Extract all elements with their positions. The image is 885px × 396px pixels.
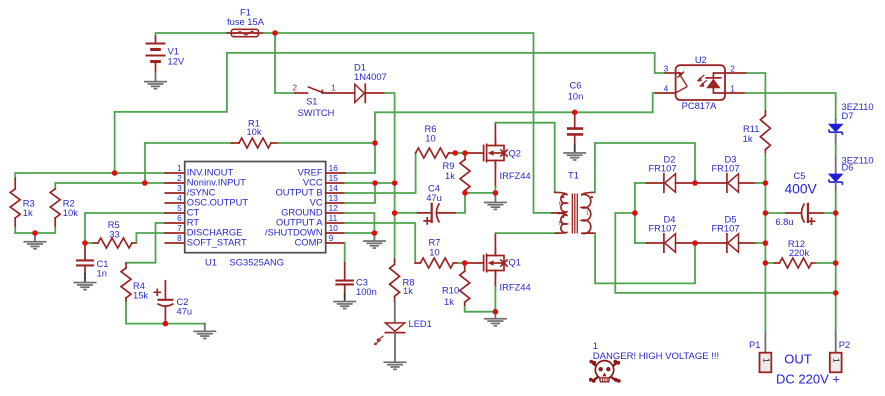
zener D6 3EZ110 xyxy=(829,144,874,190)
svg-text:7: 7 xyxy=(177,223,182,233)
wire Q1 drain to T1 xyxy=(494,233,496,255)
resistor R3 1k xyxy=(10,173,165,233)
svg-text:INV.INOUT: INV.INOUT xyxy=(187,168,234,178)
svg-text:DISCHARGE: DISCHARGE xyxy=(187,228,243,238)
ground under V1 xyxy=(144,72,167,90)
wire R9 to Q2 source xyxy=(465,192,495,194)
wire OUTPUT A pin11 to R7 xyxy=(345,223,416,263)
node pin2 junction xyxy=(142,180,148,186)
node R7-gate junction xyxy=(462,260,468,266)
resistor R1 10k xyxy=(145,119,375,184)
svg-text:R3: R3 xyxy=(23,199,35,209)
resistor R5 33 xyxy=(85,220,165,248)
node pin10 ground junction xyxy=(372,230,378,236)
node R9 bottom junction xyxy=(462,190,468,196)
svg-text:10n: 10n xyxy=(568,92,584,102)
svg-text:C3: C3 xyxy=(356,278,368,288)
svg-text:OUT: OUT xyxy=(784,352,812,367)
ground under Q1 source xyxy=(484,312,507,327)
wire D1 to VCC rail xyxy=(385,93,395,259)
wire OUTPUT B pin14 to R6 xyxy=(345,153,416,193)
svg-text:D6: D6 xyxy=(842,163,854,173)
wire opto feedback to pin1 xyxy=(115,53,666,173)
node C5 right junction xyxy=(833,210,839,216)
diode D1 1N4007 xyxy=(354,63,387,103)
svg-text:C2: C2 xyxy=(177,297,189,307)
svg-text:SG3525ANG: SG3525ANG xyxy=(230,258,285,268)
svg-text:R9: R9 xyxy=(443,161,455,171)
svg-text:2: 2 xyxy=(177,173,182,183)
capacitor C6 10n xyxy=(567,81,583,153)
svg-text:IRFZ44: IRFZ44 xyxy=(500,283,531,293)
node bridge-right D5 junction xyxy=(763,240,769,246)
resistor R4 15k xyxy=(121,263,205,323)
svg-text:1: 1 xyxy=(730,83,735,93)
svg-text:1k: 1k xyxy=(743,134,753,144)
capacitor C1 1n xyxy=(76,243,108,282)
resistor R10 1k xyxy=(442,263,495,312)
svg-text:100n: 100n xyxy=(356,287,377,297)
svg-text:2: 2 xyxy=(293,84,298,93)
wire pin5 CT to C1 xyxy=(85,213,165,243)
svg-text:C1: C1 xyxy=(97,259,109,269)
node D4-D5 junction xyxy=(692,240,698,246)
node R6-gate junction A xyxy=(452,150,458,156)
svg-text:LED1: LED1 xyxy=(409,319,432,329)
ground under R3/R2 xyxy=(24,233,47,250)
ground under C3 xyxy=(333,301,356,303)
optocoupler U2 PC817A xyxy=(656,55,747,111)
svg-text:15: 15 xyxy=(329,173,339,183)
capacitor C5 6.8u 400V xyxy=(765,171,835,227)
wire VCC pin15 row xyxy=(345,182,395,184)
svg-text:IRFZ44: IRFZ44 xyxy=(500,171,531,181)
resistor R11 1k xyxy=(743,111,771,154)
transformer T1 xyxy=(552,170,595,233)
svg-text:U2: U2 xyxy=(695,55,707,65)
node R3/R2 ground junction xyxy=(32,230,38,236)
svg-text:15k: 15k xyxy=(133,291,148,301)
svg-text:4: 4 xyxy=(177,193,182,203)
diode D5 FR107 xyxy=(695,215,765,253)
svg-text:R5: R5 xyxy=(108,220,120,230)
node bridge-left mid junction xyxy=(632,210,638,216)
svg-text:D7: D7 xyxy=(842,111,854,121)
wire bridge left to output row xyxy=(615,213,835,293)
capacitor C2 47u xyxy=(154,281,192,324)
svg-text:C6: C6 xyxy=(570,81,582,91)
ground right of C2 xyxy=(193,324,216,340)
svg-text:5: 5 xyxy=(177,203,182,213)
diode D2 FR107 xyxy=(635,155,695,193)
node R12 right junction xyxy=(833,260,839,266)
node C6 junction xyxy=(572,110,578,116)
svg-text:fuse 15A: fuse 15A xyxy=(227,17,265,27)
svg-text:10: 10 xyxy=(425,134,435,144)
svg-text:Noninv.INPUT: Noninv.INPUT xyxy=(187,178,246,188)
wire R11 to bridge column xyxy=(764,154,766,333)
node bridge-right D3 junction xyxy=(763,180,769,186)
svg-text:47u: 47u xyxy=(177,307,193,317)
svg-text:10k: 10k xyxy=(63,208,78,218)
wire VCC to VC pin13 xyxy=(345,183,375,203)
node bridge-right R12 junction xyxy=(763,260,769,266)
skull danger symbol xyxy=(589,360,621,383)
svg-text:D1: D1 xyxy=(354,63,366,73)
svg-text:6.8u: 6.8u xyxy=(775,217,793,227)
resistor R9 1k xyxy=(443,153,471,193)
wire GROUND pin12 to pin10 xyxy=(345,213,375,233)
wire pin6 RT to R4 xyxy=(126,223,165,263)
svg-text:DC 220V +: DC 220V + xyxy=(776,372,840,387)
node R1-VREF junction xyxy=(372,140,378,146)
battery V1 xyxy=(146,33,228,72)
node R6-gate junction B xyxy=(462,150,468,156)
node VCC-C4 junction xyxy=(392,210,398,216)
node top-rail junction xyxy=(272,30,278,36)
svg-text:OSC.OUTPUT: OSC.OUTPUT xyxy=(187,198,249,208)
svg-text:R11: R11 xyxy=(743,124,759,134)
svg-text:N: N xyxy=(559,201,563,207)
transistor Q2 IRFZ44 xyxy=(465,139,507,167)
wire U2 pin1 to zeners xyxy=(745,93,835,119)
svg-text:VC: VC xyxy=(310,198,323,208)
ground under Q2 source xyxy=(484,193,507,210)
switch S1 xyxy=(293,84,354,119)
svg-text:PC817A: PC817A xyxy=(682,101,718,111)
node R4/C2 junction xyxy=(163,321,169,327)
svg-text:N: N xyxy=(559,221,563,227)
svg-text:FR107: FR107 xyxy=(648,164,676,174)
ground under LED1 xyxy=(384,361,407,363)
svg-text:8: 8 xyxy=(177,233,182,243)
svg-text:10: 10 xyxy=(329,223,339,233)
node Q1 source junction xyxy=(493,309,499,315)
svg-text:1: 1 xyxy=(593,341,598,351)
capacitor C3 100n xyxy=(335,263,376,301)
svg-text:RT: RT xyxy=(187,218,200,228)
svg-text:R6: R6 xyxy=(425,124,437,134)
wire VREF pin16 riser xyxy=(345,93,656,173)
svg-text:SOFT_START: SOFT_START xyxy=(187,238,247,248)
svg-text:VREF: VREF xyxy=(298,168,323,178)
svg-text:1: 1 xyxy=(177,163,182,173)
svg-text:3: 3 xyxy=(177,183,182,193)
svg-text:GROUND: GROUND xyxy=(281,208,323,218)
svg-text:P1: P1 xyxy=(749,340,760,350)
svg-text:OUTPUT B: OUTPUT B xyxy=(276,188,323,198)
connector P1 xyxy=(749,333,771,373)
svg-text:FR107: FR107 xyxy=(648,224,676,234)
resistor R12 220k xyxy=(765,239,835,268)
led LED1 xyxy=(374,302,432,362)
svg-text:/SYNC: /SYNC xyxy=(187,188,216,198)
svg-text:1k: 1k xyxy=(445,171,455,181)
svg-text:1k: 1k xyxy=(403,286,413,296)
svg-text:Q1: Q1 xyxy=(509,258,521,268)
wire Q2 source pin xyxy=(494,161,496,188)
svg-text:SWITCH: SWITCH xyxy=(298,108,335,118)
diode D4 FR107 xyxy=(635,215,695,253)
node output row junction xyxy=(833,290,839,296)
capacitor C4 47u xyxy=(395,184,465,224)
ground under C1 xyxy=(74,282,97,284)
svg-text:VCC: VCC xyxy=(303,178,323,188)
svg-text:13: 13 xyxy=(329,193,339,203)
svg-text:1k: 1k xyxy=(23,208,33,218)
svg-text:R10: R10 xyxy=(442,286,459,296)
wire COMP pin9 down xyxy=(344,243,346,263)
svg-text:10k: 10k xyxy=(246,127,261,137)
svg-text:FR107: FR107 xyxy=(711,164,739,174)
svg-text:FR107: FR107 xyxy=(711,224,739,234)
wire bridge left column xyxy=(634,183,636,243)
node D2-D3 junction xyxy=(692,180,698,186)
IC U1 SG3525ANG xyxy=(165,162,344,268)
svg-text:C4: C4 xyxy=(428,184,440,194)
wire junction down to switch xyxy=(275,33,295,93)
svg-text:R7: R7 xyxy=(429,238,441,248)
wire Q1 source xyxy=(494,271,496,288)
svg-text:/SHUTDOWN: /SHUTDOWN xyxy=(265,228,323,238)
svg-text:OUTPUT A: OUTPUT A xyxy=(276,218,323,228)
node C1/R5 junction xyxy=(82,240,88,246)
svg-text:12: 12 xyxy=(329,203,339,213)
svg-text:COMP: COMP xyxy=(295,238,323,248)
svg-text:4: 4 xyxy=(664,83,669,93)
resistor R6 10 xyxy=(416,124,465,158)
resistor R7 10 xyxy=(415,238,465,269)
svg-text:1: 1 xyxy=(586,211,589,217)
wire secondary bottom to bridge xyxy=(595,233,695,283)
wire Q2 drain to T1 xyxy=(494,123,496,146)
wire U2 pin2 to R11 xyxy=(747,73,766,111)
transistor Q1 IRFZ44 xyxy=(465,249,507,277)
node bridge-right C5 junction xyxy=(763,210,769,216)
svg-text:1: 1 xyxy=(832,358,841,363)
svg-text:CT: CT xyxy=(187,208,200,218)
node Q2 source ground junction xyxy=(493,190,499,196)
svg-text:C5: C5 xyxy=(794,171,806,181)
svg-text:10: 10 xyxy=(429,248,439,258)
fuse F1 xyxy=(227,8,265,37)
svg-text:R4: R4 xyxy=(133,281,145,291)
ground under pin10 xyxy=(363,233,386,249)
svg-text:T1: T1 xyxy=(568,170,579,180)
diode D3 FR107 xyxy=(695,155,765,193)
svg-text:1: 1 xyxy=(761,358,770,363)
svg-text:1: 1 xyxy=(331,84,336,93)
node pin1 junction xyxy=(112,170,118,176)
zener D7 3EZ110 xyxy=(829,102,874,144)
svg-text:9: 9 xyxy=(329,233,334,243)
svg-text:400V: 400V xyxy=(785,182,818,197)
svg-text:1n: 1n xyxy=(97,269,107,279)
svg-text:1k: 1k xyxy=(444,297,454,307)
svg-text:S1: S1 xyxy=(306,97,317,107)
svg-text:47u: 47u xyxy=(426,193,442,203)
svg-text:U1: U1 xyxy=(205,258,217,268)
wire top rail to T1 center tap xyxy=(264,33,552,213)
svg-text:V1: V1 xyxy=(168,47,179,57)
wire secondary top to bridge xyxy=(595,143,695,192)
svg-text:6: 6 xyxy=(177,213,182,223)
svg-text:P2: P2 xyxy=(839,340,850,350)
node VCC-D1 junction xyxy=(392,180,398,186)
svg-text:12V: 12V xyxy=(168,57,185,67)
node VCC-pin15 junction xyxy=(372,180,378,186)
svg-text:1N4007: 1N4007 xyxy=(354,72,387,82)
svg-text:R2: R2 xyxy=(63,199,75,209)
svg-text:220k: 220k xyxy=(789,248,810,258)
svg-text:DANGER! HIGH VOLTAGE !!!: DANGER! HIGH VOLTAGE !!! xyxy=(593,351,719,362)
wire zeners to P2 xyxy=(835,191,837,333)
svg-text:3: 3 xyxy=(664,63,669,73)
resistor R8 1k xyxy=(390,259,415,301)
svg-text:14: 14 xyxy=(329,183,339,193)
svg-text:Q2: Q2 xyxy=(509,148,521,158)
svg-text:11: 11 xyxy=(329,213,338,223)
svg-text:F1: F1 xyxy=(240,8,251,18)
svg-text:2: 2 xyxy=(730,63,735,73)
connector P2 xyxy=(830,333,850,373)
ground under C6 xyxy=(563,152,586,154)
resistor R2 10k xyxy=(15,183,165,233)
svg-text:33: 33 xyxy=(109,230,119,240)
svg-text:16: 16 xyxy=(329,163,339,173)
